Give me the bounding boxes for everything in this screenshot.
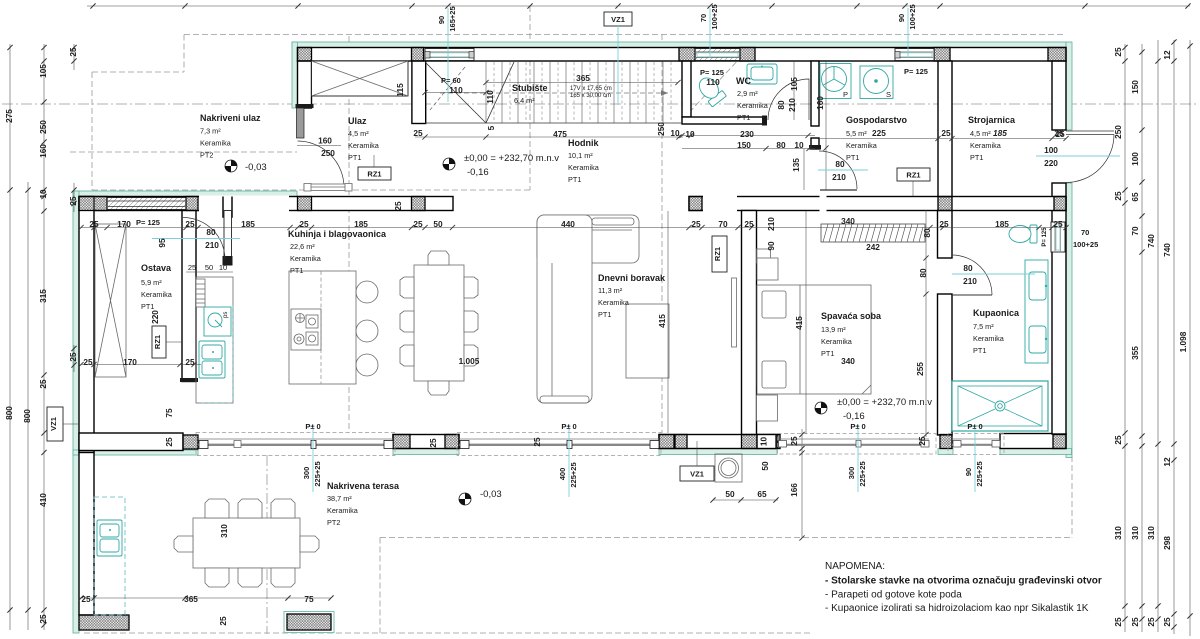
terrace outdoor counter dashed <box>94 497 125 615</box>
svg-text:7,5 m²: 7,5 m² <box>973 322 994 331</box>
dashed extension SE corner vertical <box>1071 456 1073 538</box>
kitchen north wall <box>79 197 453 211</box>
pier south wall west of middle block <box>393 435 410 449</box>
svg-text:- Stolarske stavke na otvorima: - Stolarske stavke na otvorima označuju … <box>825 576 1102 587</box>
svg-text:110: 110 <box>449 85 463 95</box>
pier south wall under bath wall <box>940 435 952 449</box>
svg-text:415: 415 <box>657 314 667 328</box>
pier NE corner <box>1048 48 1066 62</box>
svg-text:100+25: 100+25 <box>710 4 719 29</box>
divider wall living-bedroom <box>742 211 757 435</box>
VZ1 box bottom <box>680 441 714 481</box>
svg-text:25: 25 <box>428 438 438 448</box>
kitchen north wall opening (white) <box>199 196 289 212</box>
level marker terrace <box>459 489 502 505</box>
svg-text:25: 25 <box>917 436 927 446</box>
svg-text:160: 160 <box>318 136 332 146</box>
svg-text:25: 25 <box>413 128 423 138</box>
svg-text:25: 25 <box>1113 617 1123 627</box>
svg-text:25: 25 <box>83 357 93 367</box>
svg-text:80: 80 <box>776 100 786 110</box>
svg-text:100: 100 <box>1044 145 1058 155</box>
svg-text:5,5 m²: 5,5 m² <box>846 129 867 138</box>
svg-text:Keramika: Keramika <box>846 141 878 150</box>
svg-text:170: 170 <box>123 357 137 367</box>
svg-text:25: 25 <box>1113 435 1123 445</box>
window P=125 north (gospodarstvo) <box>895 49 934 61</box>
svg-text:25: 25 <box>68 47 78 57</box>
stairs data text <box>570 86 612 99</box>
window P=125 110 north (WC) <box>695 49 740 61</box>
WC west wall <box>682 61 691 117</box>
left margin chain 1 <box>9 44 11 630</box>
teal band south under east block <box>659 449 777 455</box>
svg-text:25: 25 <box>1055 129 1065 139</box>
svg-text:135: 135 <box>791 158 801 172</box>
svg-text:160: 160 <box>38 144 48 158</box>
svg-text:10: 10 <box>759 437 769 447</box>
svg-text:Keramika: Keramika <box>200 139 232 148</box>
svg-text:25: 25 <box>691 219 701 229</box>
right margin chain 2 <box>1141 44 1143 632</box>
room strojarnica <box>968 115 1016 162</box>
teal band south under bath pier <box>938 449 953 455</box>
dim line kitchen niche row <box>186 271 233 273</box>
svg-text:210: 210 <box>832 172 846 182</box>
SECTION: teal insulation bands <box>73 42 1072 633</box>
door labels kitchen <box>152 227 240 272</box>
pier kitchen north mid <box>412 197 426 211</box>
dim line hodnik 475 <box>415 136 683 138</box>
strojarnica exterior door leaf <box>1066 131 1114 135</box>
dining chairs right <box>464 277 478 366</box>
svg-text:17V x 17,65 cm: 17V x 17,65 cm <box>570 86 612 92</box>
roof edge dashed porch top <box>92 71 184 73</box>
terrace chair left <box>174 536 193 552</box>
WC south wall <box>682 117 766 124</box>
washer P gospodarstvo <box>820 64 851 100</box>
svg-text:90: 90 <box>897 14 906 22</box>
svg-text:Gospodarstvo: Gospodarstvo <box>846 115 908 125</box>
svg-text:25: 25 <box>1130 617 1140 627</box>
svg-text:100+25: 100+25 <box>1073 240 1098 249</box>
roof edge dashed porch west vertical <box>91 72 93 190</box>
pier south wall east of living window <box>659 435 674 449</box>
east wall lower <box>1052 183 1066 434</box>
svg-text:11,3 m²: 11,3 m² <box>598 286 623 295</box>
dining chair bottom <box>428 381 449 395</box>
pier north wall east of gosp window <box>934 48 950 62</box>
svg-text:25: 25 <box>68 352 78 362</box>
svg-text:Nakriveni ulaz: Nakriveni ulaz <box>200 113 261 123</box>
left margin chain 3 <box>43 44 45 630</box>
svg-text:250: 250 <box>38 120 48 134</box>
svg-text:10: 10 <box>685 129 695 139</box>
svg-text:P= 125: P= 125 <box>700 68 724 77</box>
bathroom toilet <box>1009 225 1037 243</box>
kitchen island <box>289 271 356 384</box>
svg-text:80: 80 <box>206 227 216 237</box>
south window kitchen P+-0 300 <box>196 433 395 456</box>
svg-text:250: 250 <box>656 122 666 136</box>
svg-text:800: 800 <box>22 409 32 423</box>
svg-text:80: 80 <box>776 140 786 150</box>
pier bedroom north at bath wall <box>938 197 952 211</box>
svg-text:10: 10 <box>38 189 48 199</box>
svg-text:P= 125: P= 125 <box>904 67 928 76</box>
svg-text:WC: WC <box>736 76 751 86</box>
svg-text:6,4 m²: 6,4 m² <box>514 96 535 105</box>
door labels WC rotated <box>776 98 797 112</box>
svg-text:70: 70 <box>718 219 728 229</box>
ulaz west wall upper <box>298 61 312 108</box>
stairs break diagonal 2 <box>486 62 514 123</box>
bottom terrace chain <box>79 597 331 599</box>
svg-text:100+25: 100+25 <box>908 4 917 29</box>
bed blanket line <box>800 285 871 394</box>
svg-text:275: 275 <box>4 109 14 123</box>
SECTION: doors <box>183 79 1114 295</box>
RZ1 box divider rotated <box>712 236 727 272</box>
svg-text:166: 166 <box>789 483 799 497</box>
cooktop <box>291 309 321 350</box>
svg-text:230: 230 <box>740 129 754 139</box>
WC door arc <box>768 79 809 120</box>
terrace sink <box>97 520 122 556</box>
svg-text:25: 25 <box>939 219 949 229</box>
door labels ulaz <box>318 136 335 159</box>
small gap in bedroom north wall <box>820 196 827 212</box>
svg-text:185: 185 <box>993 128 1007 138</box>
roof ridge axis line <box>2 103 1198 105</box>
SECTION: walls <box>79 48 1066 631</box>
gospodarstvo door leaf <box>820 189 857 191</box>
svg-text:10: 10 <box>794 140 804 150</box>
svg-text:PT1: PT1 <box>598 310 611 319</box>
svg-text:210: 210 <box>963 276 977 286</box>
svg-text:Keramika: Keramika <box>568 163 600 172</box>
SECTION: fixtures <box>94 64 1048 616</box>
pier north wall east of WC window <box>740 48 755 62</box>
svg-text:225+25: 225+25 <box>569 462 578 487</box>
teal band east facade lower <box>1066 183 1072 458</box>
svg-text:165+25: 165+25 <box>448 6 457 31</box>
svg-text:PT1: PT1 <box>737 113 750 122</box>
pier south wall east of ostava <box>183 435 198 449</box>
south wall end bracket at bedroom window <box>776 435 779 449</box>
north wall <box>298 48 1067 62</box>
svg-text:340: 340 <box>841 216 855 226</box>
svg-text:P= 60: P= 60 <box>441 76 461 85</box>
svg-text:355: 355 <box>1130 346 1140 360</box>
south window living P+-0 400 <box>457 433 661 456</box>
wall thickness ref line at bedroom window <box>799 429 804 453</box>
svg-text:25: 25 <box>68 196 78 206</box>
right margin chain 1 <box>1124 44 1126 632</box>
teal leader WC window top <box>699 4 719 58</box>
teal leader window1 top <box>437 6 457 102</box>
dim vertical gosp door 135 <box>803 149 805 190</box>
svg-text:25: 25 <box>218 616 228 626</box>
svg-text:- Parapeti od gotove kote poda: - Parapeti od gotove kote poda <box>825 590 962 601</box>
svg-text:Keramika: Keramika <box>821 337 853 346</box>
svg-text:P± 0: P± 0 <box>967 422 982 431</box>
pier kitchen north west corner <box>79 197 107 211</box>
bathroom west wall upper <box>938 211 953 259</box>
teal band west facade <box>73 191 79 633</box>
kitchen wall stub cap <box>223 256 233 266</box>
ostava shelving with X <box>95 224 126 377</box>
svg-text:PT1: PT1 <box>568 175 581 184</box>
svg-text:P± 0: P± 0 <box>305 422 320 431</box>
living dims <box>459 314 667 366</box>
dim line WC row1 <box>676 135 815 137</box>
room nakrivena terasa <box>327 481 400 527</box>
entrance door ulaz dim line <box>297 145 341 147</box>
svg-text:PT1: PT1 <box>348 153 361 162</box>
svg-text:310: 310 <box>1113 526 1123 540</box>
svg-text:25: 25 <box>185 357 195 367</box>
svg-text:210: 210 <box>205 240 219 250</box>
ulaz west wall cap <box>296 104 314 108</box>
svg-text:Keramika: Keramika <box>290 254 322 263</box>
stairs break diagonal dashed <box>430 67 465 110</box>
svg-text:80: 80 <box>835 159 845 169</box>
RZ1 box gospodarstvo <box>897 168 930 196</box>
stairs dims <box>395 67 928 139</box>
svg-text:Keramika: Keramika <box>141 290 173 299</box>
wardrobe dims <box>866 228 932 252</box>
west wall <box>79 197 94 453</box>
roof upper floor edge dashed <box>70 151 297 153</box>
NAPOMENA text block <box>825 561 1102 614</box>
svg-text:Stubište: Stubište <box>512 83 548 93</box>
svg-text:110: 110 <box>706 77 720 87</box>
svg-text:RZ1: RZ1 <box>367 170 381 179</box>
interior dim line row under north interior wall <box>81 227 1066 229</box>
svg-text:P: P <box>843 90 848 99</box>
dining chairs left <box>400 277 414 366</box>
strojarnica exterior door arc <box>1066 135 1114 183</box>
dim line WC row2 <box>682 148 815 150</box>
dim vertical gospodarstvo 160 <box>825 61 827 190</box>
svg-text:PT2: PT2 <box>200 151 213 160</box>
svg-text:PT1: PT1 <box>821 349 834 358</box>
svg-text:VZ1: VZ1 <box>611 15 625 24</box>
door labels gospodarstvo <box>818 159 868 182</box>
svg-text:740: 740 <box>1162 243 1172 257</box>
bed <box>757 285 871 394</box>
level marker hodnik <box>443 153 559 178</box>
svg-text:NAPOMENA:: NAPOMENA: <box>825 561 885 572</box>
top facade chain line <box>87 5 1190 7</box>
dryer S gospodarstvo <box>860 66 893 99</box>
right margin chain 5 <box>1189 40 1191 636</box>
svg-text:25: 25 <box>38 379 48 389</box>
south window bedroom P+-0 300 <box>778 434 937 455</box>
teal band south under middle block <box>393 449 459 455</box>
svg-text:Keramika: Keramika <box>737 101 769 110</box>
VZ1 box top <box>604 12 632 105</box>
svg-text:25: 25 <box>81 594 91 604</box>
svg-text:170: 170 <box>117 219 131 229</box>
door frame niche kitchen north <box>223 197 232 218</box>
svg-text:4,5 m²: 4,5 m² <box>970 129 991 138</box>
room dnevni boravak <box>598 273 666 319</box>
ostava dims <box>83 310 195 367</box>
svg-text:225+25: 225+25 <box>858 461 867 486</box>
dim vertical bathroom 255/80 <box>925 210 927 437</box>
svg-text:160: 160 <box>815 96 825 110</box>
RZ1 box ostava rotated <box>152 326 182 358</box>
svg-text:P= 125: P= 125 <box>136 218 160 227</box>
svg-text:Strojarnica: Strojarnica <box>968 115 1016 125</box>
kitchen shelf ladder <box>196 279 205 307</box>
svg-text:220: 220 <box>1044 158 1058 168</box>
svg-text:-0,16: -0,16 <box>843 411 865 422</box>
svg-text:Keramika: Keramika <box>348 141 380 150</box>
room kupaonica <box>973 308 1020 355</box>
pier south wall under divider <box>742 435 758 449</box>
svg-text:185: 185 <box>241 219 255 229</box>
svg-text:250: 250 <box>321 148 335 158</box>
teal leader living south window <box>558 422 578 497</box>
south wall bathroom segment <box>1000 434 1066 449</box>
dim vertical gospodarstvo 105 <box>793 61 795 120</box>
terrace bottom dashed <box>84 632 812 634</box>
south wall rotated small dims <box>164 408 927 538</box>
svg-text:242: 242 <box>866 242 880 252</box>
axis vertical through kitchen island <box>348 36 350 433</box>
svg-text:10: 10 <box>219 263 227 272</box>
svg-text:±0,00 = +232,70 m.n.v: ±0,00 = +232,70 m.n.v <box>837 397 932 408</box>
window bathroom east 70 100+25 <box>1051 222 1065 252</box>
svg-text:PT1: PT1 <box>846 153 859 162</box>
window P=60 110 north (stairs) <box>425 49 474 61</box>
svg-text:220: 220 <box>150 310 160 324</box>
svg-text:300: 300 <box>302 467 311 480</box>
sofa body <box>537 215 592 403</box>
svg-text:165 x 30,00 cm: 165 x 30,00 cm <box>570 93 611 99</box>
south window bathroom P+-0 90 <box>948 434 1004 455</box>
svg-text:90: 90 <box>437 16 446 24</box>
pier kitchen north east of window <box>186 197 198 211</box>
svg-text:365: 365 <box>184 594 198 604</box>
level marker porch <box>225 160 267 173</box>
south wall block east of living window <box>659 435 780 449</box>
svg-text:150: 150 <box>1130 80 1140 94</box>
svg-text:PT1: PT1 <box>290 266 303 275</box>
roof edge dashed top <box>184 34 1066 36</box>
pier south wall east of middle block <box>445 435 459 449</box>
teal band north facade <box>292 42 1066 48</box>
svg-text:440: 440 <box>561 219 575 229</box>
svg-text:38,7 m²: 38,7 m² <box>327 494 352 503</box>
teal band east facade upper <box>1066 42 1072 130</box>
bathroom vanity <box>1025 260 1048 363</box>
svg-text:340: 340 <box>841 356 855 366</box>
svg-text:415: 415 <box>794 316 804 330</box>
room hodnik <box>568 138 600 184</box>
pier NW corner north wall <box>298 48 312 62</box>
ulaz bench <box>304 184 352 192</box>
svg-text:PT2: PT2 <box>327 518 340 527</box>
svg-text:-0,03: -0,03 <box>245 162 267 173</box>
hodnik-bedroom wall east part <box>689 197 1066 211</box>
gospodarstvo west wall door jamb <box>811 138 819 149</box>
svg-text:80: 80 <box>918 268 928 278</box>
bedroom dims <box>794 268 928 376</box>
dim vertical living 415 <box>667 211 669 433</box>
svg-text:-0,16: -0,16 <box>467 167 489 178</box>
room kuhinja <box>288 229 387 275</box>
entrance door ulaz arc <box>298 141 345 188</box>
svg-text:12: 12 <box>1162 50 1172 60</box>
svg-text:PT1: PT1 <box>141 302 154 311</box>
svg-text:13,9 m²: 13,9 m² <box>821 325 846 334</box>
svg-text:210: 210 <box>766 217 776 231</box>
bedroom dresser on divider wall <box>757 340 770 385</box>
svg-text:25: 25 <box>744 219 754 229</box>
stairs walk line <box>440 92 668 94</box>
svg-text:75: 75 <box>164 408 174 418</box>
svg-text:250: 250 <box>1113 125 1123 139</box>
svg-text:150: 150 <box>737 140 751 150</box>
svg-text:22,6 m²: 22,6 m² <box>290 242 315 251</box>
teal leader kitchen south window <box>302 422 322 492</box>
WC south wall end cap <box>762 116 767 126</box>
svg-text:- Kupaonice izolirati sa hidro: - Kupaonice izolirati sa hidroizolaciom … <box>825 603 1089 614</box>
svg-text:50: 50 <box>205 263 213 272</box>
terrace roof dashed south <box>380 537 1072 539</box>
nightstand lower <box>757 395 778 421</box>
dining chair top <box>428 251 449 265</box>
svg-text:25: 25 <box>941 128 951 138</box>
roof valley dashed diagonal at WC <box>683 57 741 119</box>
svg-text:800: 800 <box>4 406 14 420</box>
bathroom door leaf <box>952 294 992 296</box>
svg-text:50: 50 <box>433 219 443 229</box>
svg-text:50: 50 <box>725 489 735 499</box>
room gospodarstvo <box>846 115 908 162</box>
ulaz east wall <box>412 61 426 124</box>
room WC <box>736 76 769 122</box>
teal band south under ostava wall <box>73 450 198 455</box>
kitchen sink double <box>199 341 225 378</box>
RZ1 box ulaz <box>358 155 391 180</box>
terrace roof dashed west vertical <box>379 538 381 634</box>
WC sink <box>747 64 777 84</box>
svg-text:VZ1: VZ1 <box>49 417 58 431</box>
svg-text:RZ1: RZ1 <box>906 171 920 180</box>
pier north wall west of window1 <box>412 48 424 62</box>
svg-text:25: 25 <box>1162 617 1172 627</box>
dishwasher ps <box>204 307 231 336</box>
bathroom west wall lower <box>938 294 953 435</box>
gospodarstvo door arc <box>819 151 857 189</box>
svg-text:315: 315 <box>38 289 48 303</box>
svg-text:50: 50 <box>760 461 770 471</box>
svg-text:Keramika: Keramika <box>973 334 1005 343</box>
opening hodnik to bedroom corridor <box>703 196 737 212</box>
svg-text:Kupaonica: Kupaonica <box>973 308 1020 318</box>
svg-text:10,1 m²: 10,1 m² <box>568 151 593 160</box>
bathroom door arc <box>952 255 992 295</box>
svg-text:25: 25 <box>89 219 99 229</box>
south wall ostava segment <box>79 433 183 451</box>
south wall block between windows <box>393 435 459 449</box>
dim line stairs 365 <box>486 82 678 84</box>
